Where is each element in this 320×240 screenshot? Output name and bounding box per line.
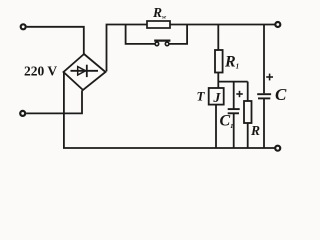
- svg-text:Rse: Rse: [152, 5, 167, 21]
- svg-text:R: R: [250, 123, 260, 138]
- capacitor C1: [228, 109, 240, 113]
- wire: [170, 24, 275, 26]
- svg-text:T: T: [197, 89, 206, 104]
- polarity plus C: [266, 74, 273, 81]
- wire: [218, 81, 247, 83]
- terminal bottom-left: [20, 111, 25, 116]
- resistor R: [244, 101, 252, 123]
- resistor R1: [215, 50, 223, 73]
- wire: [107, 25, 148, 72]
- wire: [215, 105, 217, 148]
- capacitor C: [257, 94, 271, 98]
- wire: [233, 113, 235, 148]
- switch bar: [154, 39, 170, 41]
- svg-text:C1: C1: [220, 113, 234, 130]
- wire: [64, 73, 275, 148]
- wire: [26, 90, 82, 113]
- wire: [217, 73, 219, 89]
- resistor Rse: [147, 21, 170, 28]
- wire: [233, 82, 235, 109]
- terminal top-right: [275, 22, 280, 27]
- relay coil J: [209, 88, 224, 105]
- wire: [263, 25, 265, 94]
- polarity plus C1: [236, 91, 243, 97]
- wire: [263, 98, 265, 148]
- wire: [247, 82, 249, 101]
- terminal top-left: [21, 24, 26, 29]
- switch contact: [165, 42, 169, 46]
- svg-text:J: J: [212, 91, 221, 106]
- wire: [247, 123, 249, 148]
- wire: [217, 25, 219, 51]
- svg-text:220 V: 220 V: [24, 63, 57, 78]
- wire: [27, 27, 84, 55]
- switch contact: [155, 42, 159, 46]
- svg-text:R1: R1: [224, 54, 239, 71]
- diode: [71, 65, 99, 77]
- wire: [169, 25, 187, 44]
- wire: [126, 25, 155, 44]
- terminal bottom-right: [275, 146, 280, 151]
- svg-text:C: C: [275, 85, 287, 104]
- bridge rectifier: [64, 54, 106, 90]
